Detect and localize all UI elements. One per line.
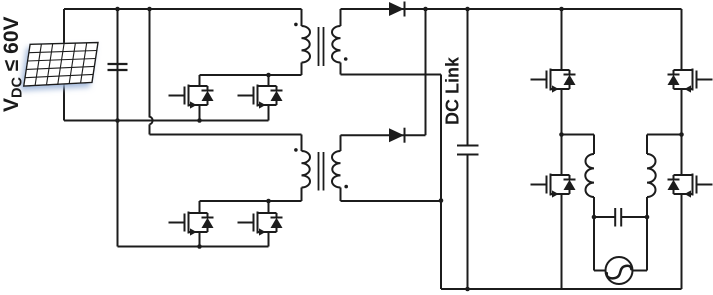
capacitor DC link <box>467 9 469 146</box>
node DC link cap top <box>465 7 470 12</box>
transistor Q3 <box>169 212 214 236</box>
svg-text:DC Link: DC Link <box>443 56 463 125</box>
wire input negative rail <box>64 120 269 122</box>
node DC link cap bottom <box>465 287 470 292</box>
wire Q8 drain lead <box>681 135 683 176</box>
wire AC source right lead <box>646 217 648 271</box>
wire top rail (PV+ to T1 primary) <box>64 8 302 10</box>
node L2 output <box>645 215 650 220</box>
wire Q3 source lead <box>199 232 201 247</box>
svg-text:VDC ≤ 60V: VDC ≤ 60V <box>0 16 26 112</box>
inductor L1 <box>593 135 595 155</box>
wire T2 primary top feed <box>150 134 302 136</box>
node right mid-point <box>679 132 684 137</box>
transistor Q4 <box>238 212 283 236</box>
node Q1 source junction <box>197 118 202 123</box>
transistor Q5 <box>531 69 576 93</box>
node T2 feed tap on top rail <box>147 7 152 12</box>
wire right mid to filter <box>647 134 682 136</box>
wire Q7 source lead <box>681 89 683 135</box>
transistor Q1 <box>169 85 214 109</box>
transformer T2 secondary winding <box>340 135 342 151</box>
wire Q1 source lead <box>199 105 201 121</box>
wire T1 secondary bottom lead <box>341 74 442 76</box>
wire Q4 drain lead <box>268 201 270 213</box>
wire DC+ rail (T1 sec to bridge) <box>341 8 682 10</box>
node input cap / negative rail junction <box>115 118 120 123</box>
wire Q6 drain lead <box>561 135 563 176</box>
diode D1 <box>389 2 404 16</box>
node left mid-point <box>559 132 564 137</box>
AC source (grid) <box>606 257 633 284</box>
transistor Q7 <box>668 69 713 93</box>
wire Q2 drain lead <box>268 75 270 86</box>
node D1/D2 cathode junction <box>423 7 428 12</box>
wire lower drain bus <box>200 200 302 202</box>
wire T2 feed vertical with hop <box>150 9 153 135</box>
wire upper drain bus <box>200 74 302 76</box>
wire T2 secondary top lead to D2 <box>341 134 426 136</box>
node T2 secondary phase dot <box>344 185 348 189</box>
node T2 secondary return junction <box>439 198 444 203</box>
transistor Q6 <box>531 174 576 198</box>
wire Q1 drain lead <box>199 75 201 86</box>
wire lower-left return rail <box>118 246 269 248</box>
transformer T1 primary winding <box>301 9 303 26</box>
wire lower converter source riser <box>268 233 270 247</box>
wire DC- return vertical <box>440 75 442 290</box>
node bridge left leg top <box>559 7 564 12</box>
wire Q5 source lead <box>561 89 563 135</box>
node Q2 drain junction <box>266 73 271 78</box>
node T1 primary phase dot <box>294 23 298 27</box>
wire DC- bottom rail <box>441 288 682 290</box>
PV solar panel <box>24 43 98 87</box>
wire D2 cathode riser <box>425 9 427 135</box>
node Q3 source junction <box>197 244 202 249</box>
transformer T1 secondary winding <box>340 9 342 26</box>
inductor L2 <box>646 135 648 155</box>
transistor Q8 <box>668 174 713 198</box>
wire Q6 source lead <box>561 194 563 289</box>
transistor Q2 <box>238 85 283 109</box>
diode D2 <box>389 128 404 142</box>
capacitor AC filter <box>594 216 615 218</box>
transformer T1 core <box>318 27 320 66</box>
capacitor Cin <box>117 9 119 247</box>
wire right leg top <box>681 9 683 70</box>
transformer T2 primary winding <box>302 151 311 188</box>
wire Q5 drain lead <box>561 9 563 70</box>
node T1 secondary phase dot <box>344 57 348 61</box>
transformer T2 core <box>318 152 320 191</box>
wire Q3 drain lead <box>199 201 201 213</box>
wire T2 secondary bottom lead <box>341 200 442 202</box>
wire upper converter source riser <box>268 105 270 121</box>
node L1 output <box>592 215 597 220</box>
node T2 primary phase dot <box>294 148 298 152</box>
wire Q8 source lead <box>681 194 683 289</box>
wire AC source left lead <box>593 217 595 271</box>
wire PV left vertical <box>63 9 65 121</box>
node Q4 drain junction <box>266 199 271 204</box>
node input cap top <box>115 7 120 12</box>
wire left mid to filter <box>562 134 595 136</box>
wire T2 primary top lead <box>301 135 303 152</box>
